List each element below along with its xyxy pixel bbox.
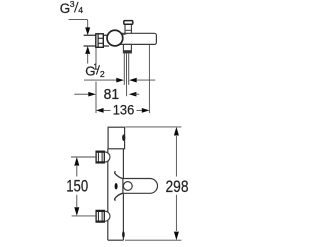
- svg-text:3: 3: [70, 0, 75, 9]
- svg-text:2: 2: [100, 69, 105, 79]
- svg-text:G: G: [60, 1, 70, 16]
- svg-text:136: 136: [113, 101, 135, 117]
- svg-text:150: 150: [66, 176, 88, 195]
- svg-text:298: 298: [166, 178, 189, 196]
- svg-text:4: 4: [78, 5, 83, 15]
